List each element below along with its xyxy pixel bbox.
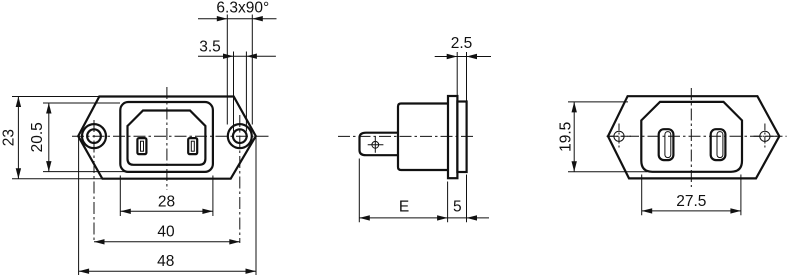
vertical centerline [166,87,168,190]
svg-text:2.5: 2.5 [451,35,473,52]
middle view: side view [338,96,476,178]
svg-text:E: E [399,199,409,216]
recess rounded rectangle [120,102,213,172]
right hole centerline [239,115,241,243]
flange outline [608,96,779,178]
C14 face outline [128,111,206,165]
outlet face outline [641,102,742,172]
dimension 20.5 [29,103,127,172]
svg-text:5: 5 [453,199,462,216]
svg-text:23: 23 [1,129,18,146]
svg-text:3.5: 3.5 [199,38,221,55]
right mounting hole [760,131,770,141]
dimension 40 [94,223,240,244]
svg-text:48: 48 [157,253,174,270]
left hole centerline [93,120,95,243]
body [398,104,448,171]
flange plate [448,96,457,178]
dimension 23 [1,97,102,179]
right mounting hole [228,124,252,148]
flange outline [78,97,256,179]
horizontal centerline [72,135,271,137]
dimension 28 [120,176,213,217]
svg-text:19.5: 19.5 [558,122,575,152]
left mounting hole [82,124,106,148]
svg-text:6.3x90°: 6.3x90° [216,0,269,17]
dimension 2.5 [435,35,491,101]
centerline [338,135,476,137]
svg-text:20.5: 20.5 [29,122,46,152]
dimension 48 [79,136,256,275]
horizontal centerline [607,135,787,137]
right slot [711,129,726,160]
dimension 19.5 [558,102,648,172]
right view: outlet front [607,88,787,187]
dimension 27.5 [642,175,741,216]
right pin [188,138,197,154]
svg-text:28: 28 [158,193,175,210]
pin hole [372,141,379,148]
vertical centerline [690,88,692,187]
solder pin tab [360,133,399,156]
dimension 3.5 [198,38,276,131]
svg-text:27.5: 27.5 [676,193,706,210]
left slot [659,129,674,160]
left view: inlet front [72,87,271,243]
dimension E and 5 [359,159,489,223]
left pin [137,138,146,154]
svg-text:40: 40 [157,223,175,240]
left mounting hole [614,131,624,141]
front plate [457,102,466,173]
dimension 6.3x90deg [198,0,277,125]
